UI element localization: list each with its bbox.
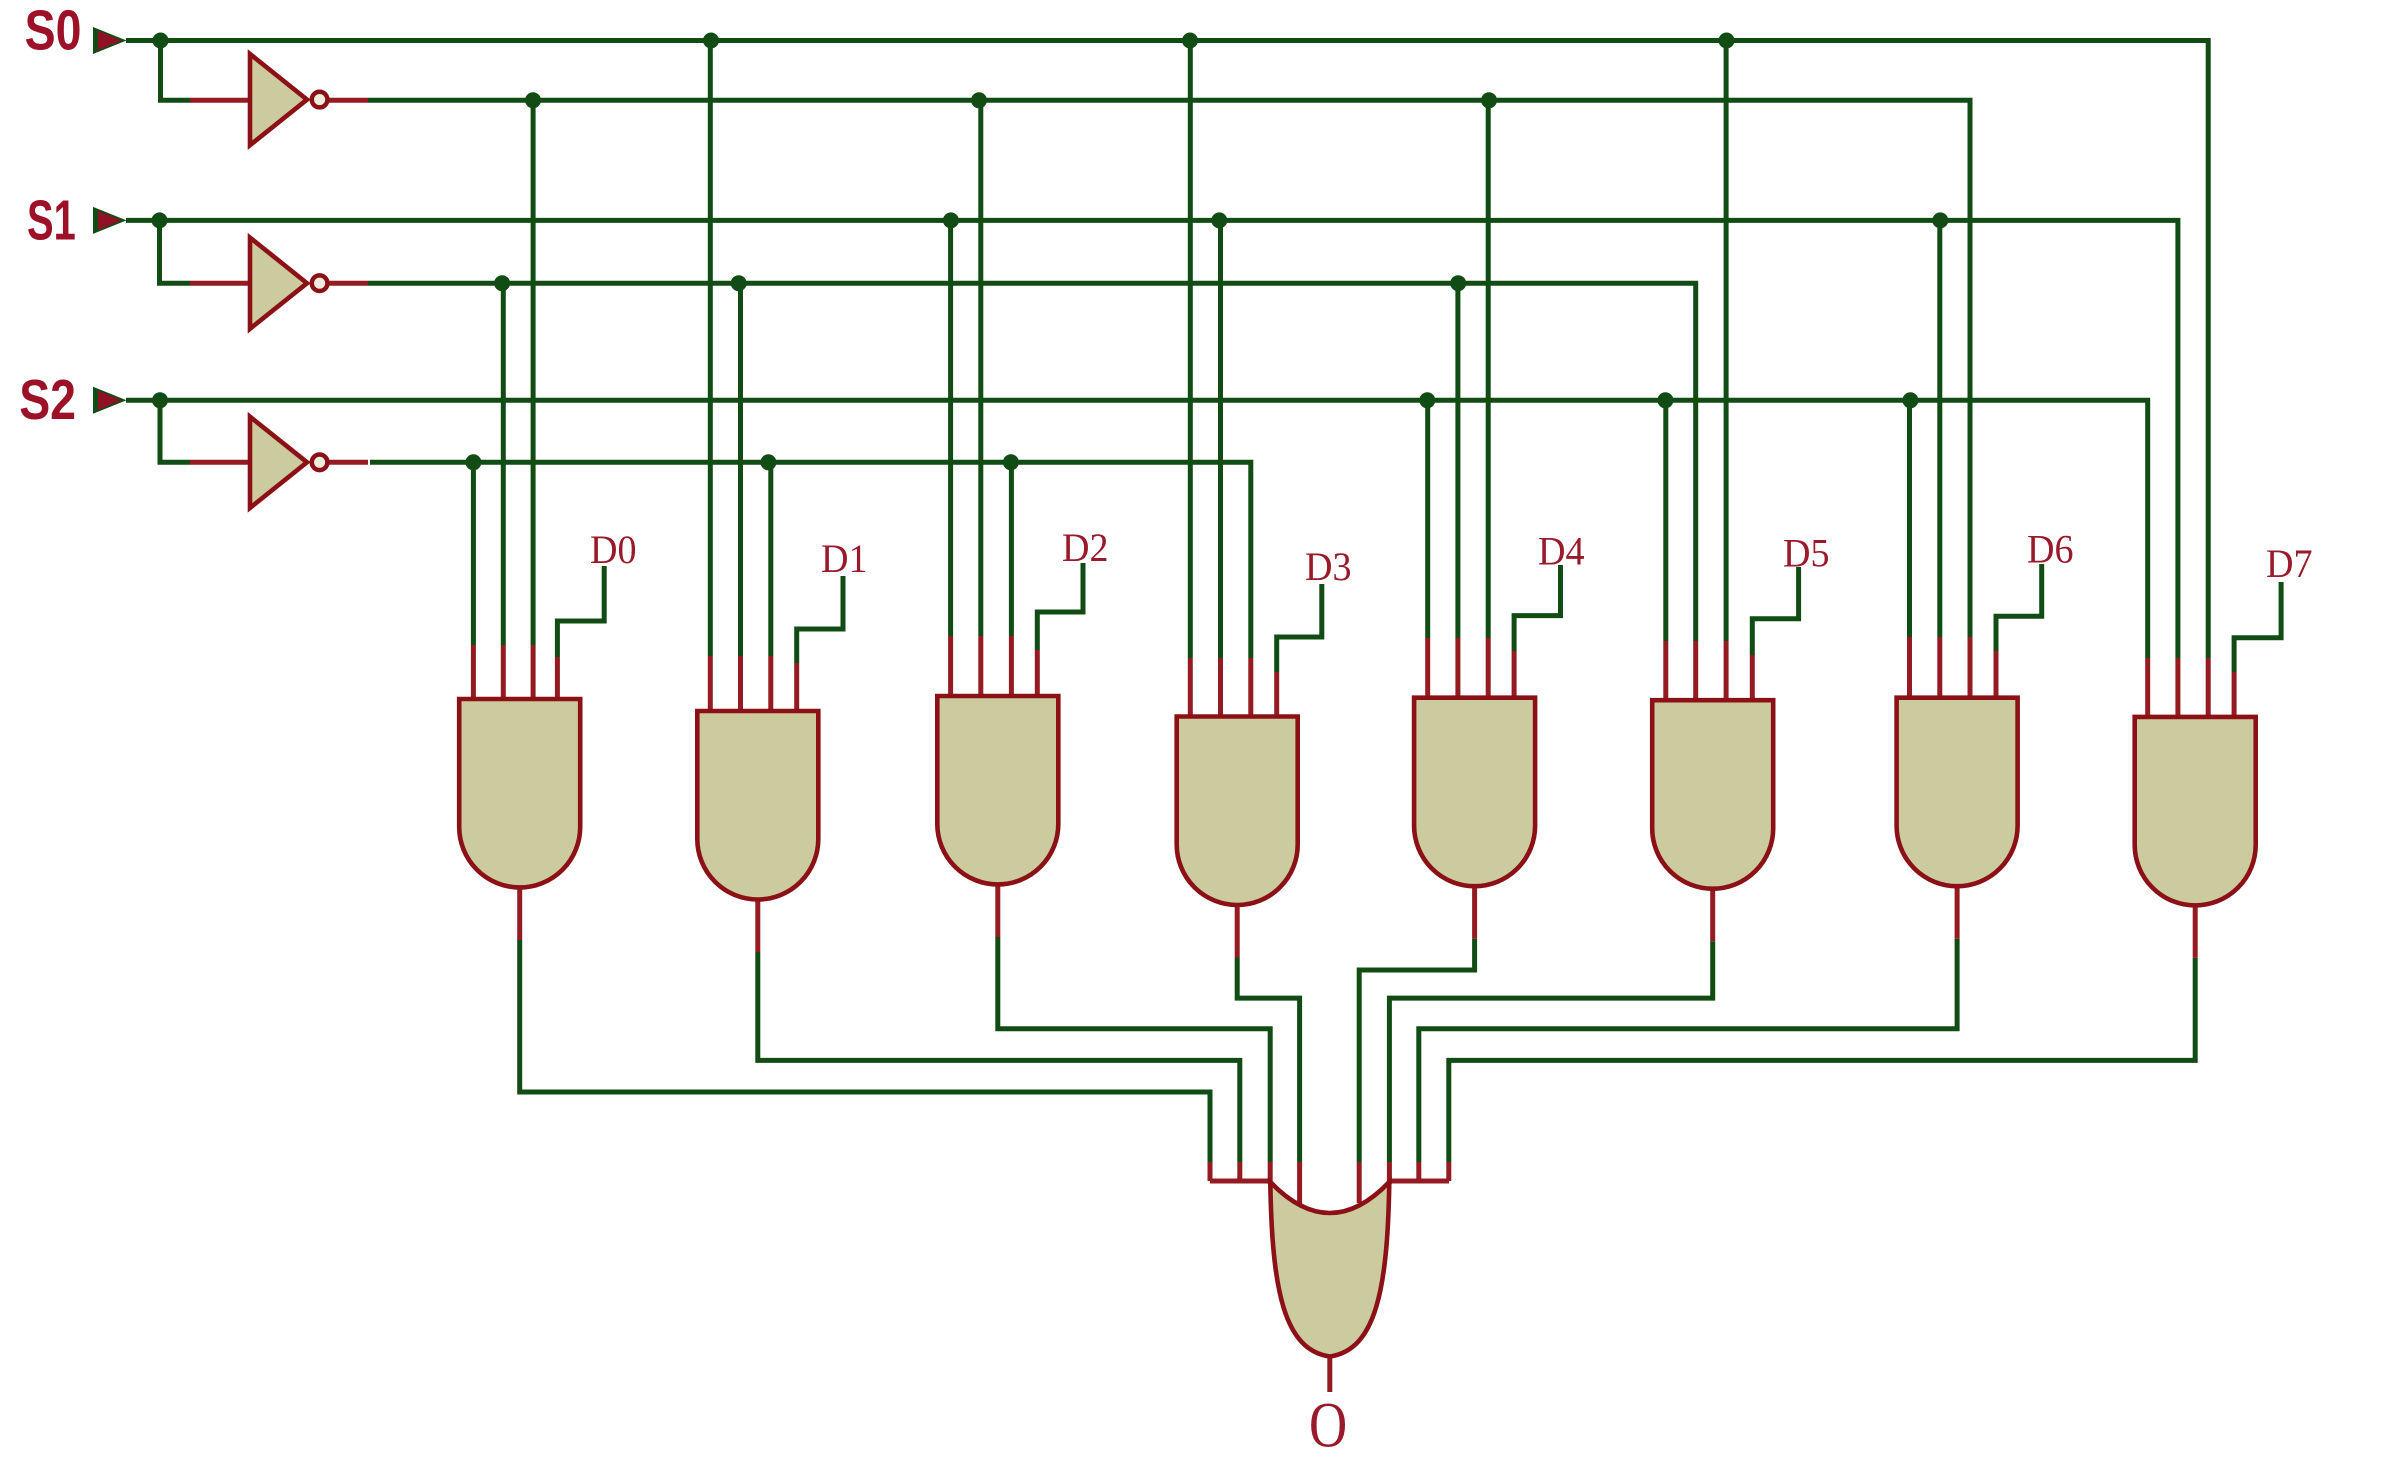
svg-text:D0: D0 — [590, 527, 637, 572]
svg-text:S1: S1 — [27, 188, 76, 252]
svg-text:S2: S2 — [19, 369, 76, 433]
svg-text:D4: D4 — [1538, 528, 1585, 573]
svg-text:D5: D5 — [1783, 530, 1830, 575]
svg-text:D3: D3 — [1305, 544, 1352, 589]
svg-text:D2: D2 — [1062, 525, 1109, 570]
svg-text:D7: D7 — [2266, 541, 2313, 586]
svg-text:S0: S0 — [25, 0, 82, 63]
svg-text:D1: D1 — [821, 536, 868, 581]
svg-text:D6: D6 — [2027, 526, 2074, 571]
svg-text:O: O — [1309, 1389, 1347, 1457]
